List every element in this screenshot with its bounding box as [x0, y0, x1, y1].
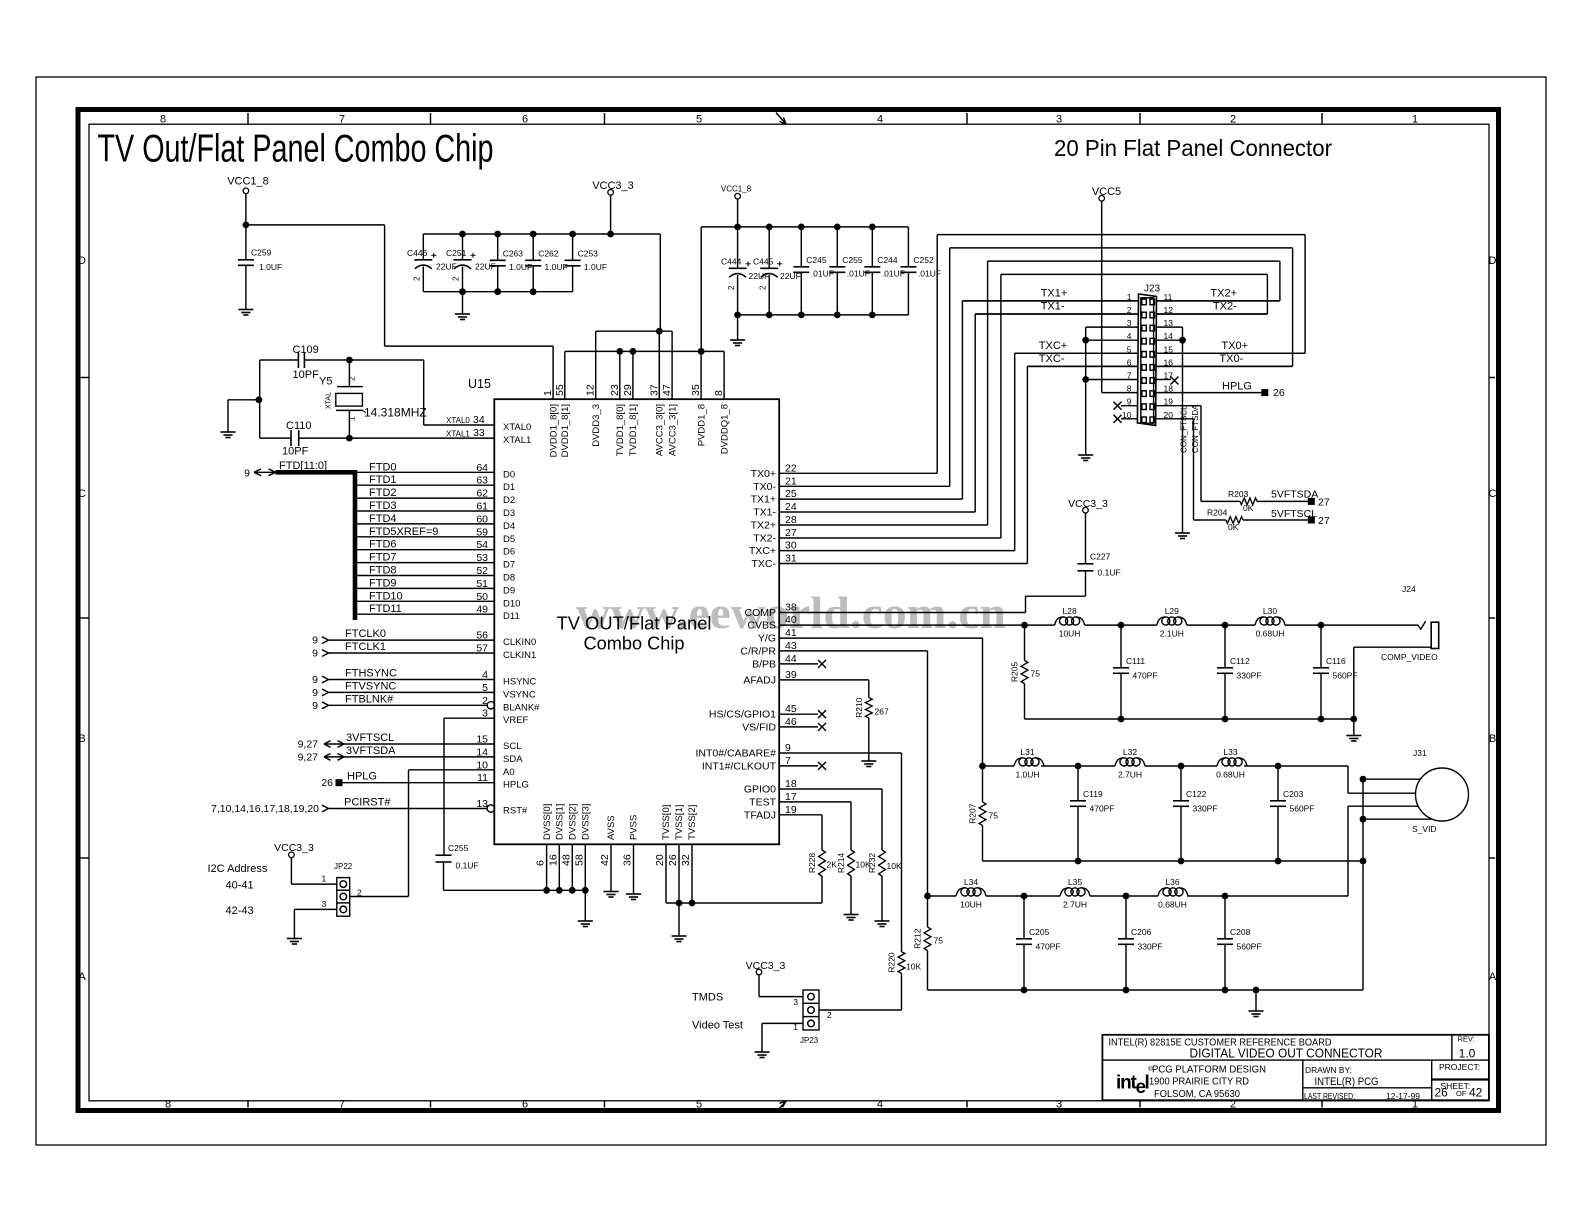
- resistor R203: [1201, 500, 1240, 502]
- svg-text:INTEL(R) PCG: INTEL(R) PCG: [1315, 1076, 1379, 1088]
- svg-text:60: 60: [476, 513, 488, 525]
- svg-text:INT0#/CABARE#: INT0#/CABARE#: [695, 748, 776, 760]
- svg-text:AVSS: AVSS: [606, 815, 617, 840]
- wire JP22 pin2 to A0: [350, 896, 409, 898]
- svg-text:62: 62: [476, 488, 488, 500]
- svg-text:10PF: 10PF: [293, 369, 320, 381]
- inductor L36: [1158, 888, 1167, 896]
- svg-text:3VFTSDA: 3VFTSDA: [346, 745, 396, 757]
- ground cap bank2: [737, 315, 739, 340]
- capacitor C206: [1125, 896, 1127, 939]
- svg-text:330PF: 330PF: [1138, 942, 1163, 952]
- svg-text:Y5: Y5: [319, 376, 332, 388]
- capacitor C445: [768, 227, 770, 268]
- svg-text:R207: R207: [968, 803, 978, 824]
- svg-text:VS/FID: VS/FID: [742, 721, 776, 733]
- chip top pin 55 DVDD1_8[1]: [564, 351, 566, 399]
- svg-text:10UH: 10UH: [960, 899, 982, 909]
- svg-text:D8: D8: [503, 573, 515, 584]
- chip top pin 35 PVDD1_8: [700, 351, 702, 399]
- wire row3 bottom rail: [928, 989, 1364, 991]
- svg-text:TXC-: TXC-: [1039, 353, 1065, 365]
- inductor L32: [1115, 758, 1124, 766]
- wire FTCLK1 to pin 57: [329, 652, 495, 654]
- svg-text:4: 4: [877, 1098, 883, 1110]
- svg-text:L28: L28: [1063, 606, 1077, 616]
- wire FTD6 to pin 54: [357, 549, 494, 551]
- svg-text:17: 17: [785, 791, 797, 803]
- capacitor C259: [245, 225, 247, 260]
- svg-text:36: 36: [622, 854, 634, 866]
- ground TVSS: [672, 935, 687, 937]
- svg-text:TV OUT/Flat Panel: TV OUT/Flat Panel: [557, 613, 712, 634]
- column ticks top: [247, 113, 249, 124]
- connector J23 pin squares: [1142, 299, 1147, 305]
- wire FTD11 to pin 49: [357, 613, 494, 615]
- svg-text:1: 1: [321, 874, 326, 884]
- svg-text:75: 75: [1031, 669, 1041, 679]
- svg-text:FTD10: FTD10: [369, 590, 403, 602]
- power VCC3_3 JP22: [289, 852, 295, 858]
- svg-text:I2C Address: I2C Address: [208, 863, 268, 875]
- svg-text:FTD0: FTD0: [369, 461, 397, 473]
- pin bubble BLANK#: [487, 702, 494, 709]
- power VCC5: [1099, 196, 1105, 202]
- capacitor C253: [572, 234, 574, 260]
- svg-text:10UH: 10UH: [1059, 628, 1081, 638]
- svg-text:0.68UH: 0.68UH: [1216, 769, 1245, 779]
- wire PCIRST# to pin 13: [329, 808, 488, 810]
- svg-text:31: 31: [785, 553, 797, 565]
- wire Y/G to row2: [779, 637, 982, 639]
- svg-text:1900 PRAIRIE CITY RD: 1900 PRAIRIE CITY RD: [1149, 1076, 1249, 1088]
- chip top pin 37 AVCC3_3[0]: [658, 331, 660, 399]
- svg-text:D6: D6: [503, 547, 515, 558]
- svg-text:R228: R228: [807, 853, 817, 874]
- ground row1: [1346, 735, 1361, 737]
- svg-text:560PF: 560PF: [1290, 804, 1315, 814]
- capacitor C262: [532, 234, 534, 260]
- svg-text:TX1-: TX1-: [1041, 301, 1065, 313]
- wire J31 pin4: [1363, 818, 1432, 820]
- svg-text:OF: OF: [1456, 1089, 1467, 1098]
- wire FTD1 to pin 63: [357, 484, 494, 486]
- chip bottom pin 58 DVSS[3]: [584, 844, 586, 890]
- svg-text:0.68UH: 0.68UH: [1158, 899, 1187, 909]
- svg-text:53: 53: [476, 552, 488, 564]
- svg-text:12-17-99: 12-17-99: [1386, 1091, 1420, 1101]
- wire VCC1_8 net: [245, 194, 247, 225]
- svg-text:TV Out/Flat Panel Combo Chip: TV Out/Flat Panel Combo Chip: [98, 128, 494, 171]
- capacitor C227: [1078, 563, 1094, 565]
- svg-text:54: 54: [476, 539, 488, 551]
- capacitor C252: [907, 227, 909, 267]
- no-connect X J23 pin 17: [1171, 377, 1179, 385]
- svg-text:63: 63: [476, 475, 488, 487]
- wire HPLG pin 11: [343, 782, 495, 784]
- pin XTAL0 34 wire: [424, 424, 495, 426]
- svg-text:TVSS[1]: TVSS[1]: [674, 805, 685, 840]
- pin XTAL1 33 wire: [349, 437, 494, 439]
- svg-text:C122: C122: [1186, 789, 1207, 799]
- svg-text:VCC5: VCC5: [1092, 186, 1121, 198]
- DVSS ground bus: [444, 889, 586, 891]
- wire VCC5 to J23 pin 8: [1101, 201, 1103, 392]
- wire row3 ground stub: [1255, 990, 1257, 1011]
- svg-text:330PF: 330PF: [1237, 671, 1262, 681]
- resistor R207: [982, 766, 984, 802]
- wire FTD9 to pin 51: [357, 587, 494, 589]
- wire VCC3_3 to JP23 pin3: [758, 975, 760, 997]
- svg-text:41: 41: [785, 627, 797, 639]
- svg-text:PROJECT:: PROJECT:: [1439, 1062, 1480, 1072]
- svg-text:5: 5: [482, 682, 488, 694]
- svg-text:14: 14: [476, 746, 488, 758]
- svg-text:TX2-: TX2-: [753, 533, 776, 545]
- svg-text:1.0UF: 1.0UF: [584, 262, 607, 272]
- svg-text:VCC1_8: VCC1_8: [721, 185, 752, 194]
- svg-text:D: D: [1489, 255, 1497, 267]
- svg-text:HS/CS/GPIO1: HS/CS/GPIO1: [709, 709, 776, 721]
- svg-text:TX1+: TX1+: [1041, 287, 1068, 299]
- no-connect X J23 pin 9: [1114, 402, 1122, 410]
- svg-text:2.1UH: 2.1UH: [1160, 628, 1184, 638]
- svg-text:1.0UF: 1.0UF: [545, 262, 568, 272]
- svg-text:C: C: [78, 488, 86, 500]
- svg-text:30: 30: [785, 540, 797, 552]
- svg-text:C227: C227: [1090, 552, 1111, 562]
- svg-text:TX2+: TX2+: [751, 520, 776, 532]
- svg-text:.01UF: .01UF: [811, 269, 834, 279]
- svg-text:C251: C251: [446, 248, 467, 258]
- svg-text:D0: D0: [503, 469, 515, 480]
- svg-text:1.0: 1.0: [1459, 1047, 1476, 1061]
- ground R210: [861, 760, 876, 762]
- TVSS bus: [666, 902, 822, 904]
- pin bubble RST#: [487, 805, 494, 812]
- sheet alignment arrow bottom: [776, 1101, 786, 1113]
- capacitor C116: [1320, 625, 1322, 668]
- svg-text:A: A: [78, 971, 86, 983]
- svg-text:C119: C119: [1083, 789, 1103, 799]
- svg-text:10: 10: [476, 759, 488, 771]
- svg-text:B: B: [78, 733, 85, 745]
- svg-text:R212: R212: [913, 928, 923, 949]
- svg-text:TMDS: TMDS: [692, 992, 723, 1004]
- wire VREF to C255: [444, 717, 494, 719]
- svg-text:C111: C111: [1126, 656, 1145, 666]
- svg-text:TX2-: TX2-: [1213, 301, 1237, 313]
- svg-text:VREF: VREF: [503, 715, 529, 726]
- wire JP22 pin3 to ground: [294, 908, 336, 910]
- wire 3VFTSCL to pin 15: [324, 743, 494, 745]
- svg-text:75: 75: [989, 811, 999, 821]
- svg-text:3: 3: [1056, 1098, 1062, 1110]
- resistor R220: [898, 952, 905, 974]
- svg-text:42: 42: [1469, 1086, 1483, 1100]
- svg-text:22UF: 22UF: [436, 262, 457, 272]
- svg-text:C263: C263: [503, 248, 524, 258]
- svg-text:C203: C203: [1283, 789, 1304, 799]
- svg-text:TVDD1_8[0]: TVDD1_8[0]: [615, 404, 626, 456]
- svg-text:VCC3_3: VCC3_3: [592, 180, 634, 192]
- svg-text:8: 8: [160, 114, 166, 126]
- svg-text:22UF: 22UF: [749, 271, 770, 281]
- capacitor C205: [1023, 896, 1025, 939]
- wire CON_FTSCL from J23 pin 20: [1157, 418, 1194, 420]
- svg-text:DVDD1_8[1]: DVDD1_8[1]: [560, 404, 571, 457]
- ground cap bank1: [462, 292, 464, 314]
- svg-text:FTD8: FTD8: [369, 565, 397, 577]
- no-connect X VS/FID: [779, 726, 818, 728]
- jumper JP22: [337, 878, 350, 917]
- wire A0 pin 10 to JP22: [409, 769, 495, 771]
- svg-text:FTD9: FTD9: [369, 577, 397, 589]
- wire bank1 to rail VCC3_3: [659, 234, 661, 331]
- svg-text:REV:: REV:: [1458, 1035, 1475, 1044]
- svg-text:CLKIN1: CLKIN1: [503, 650, 536, 661]
- svg-text:20: 20: [654, 854, 666, 866]
- wire TX2- from chip to J23: [779, 537, 1001, 539]
- svg-text:40: 40: [785, 614, 797, 626]
- svg-text:18: 18: [785, 778, 797, 790]
- svg-text:330PF: 330PF: [1193, 804, 1218, 814]
- wire TX0- from chip to J23: [779, 485, 950, 487]
- svg-text:39: 39: [785, 669, 797, 681]
- svg-text:DVSS[3]: DVSS[3]: [581, 804, 592, 840]
- ground crystal: [221, 431, 236, 433]
- svg-text:VCC3_3: VCC3_3: [746, 960, 786, 972]
- svg-text:9: 9: [312, 635, 318, 647]
- svg-text:2.7UH: 2.7UH: [1063, 899, 1087, 909]
- svg-text:22: 22: [785, 462, 797, 474]
- svg-text:28: 28: [785, 514, 797, 526]
- svg-text:7: 7: [339, 1098, 345, 1110]
- wire row2 rail: [983, 765, 1015, 767]
- svg-text:FTD4: FTD4: [369, 513, 397, 525]
- svg-text:TX0+: TX0+: [1221, 340, 1248, 352]
- svg-text:27: 27: [1318, 515, 1330, 527]
- bus FTD[11:0] thick bus: [276, 470, 356, 475]
- svg-text:26: 26: [1273, 387, 1285, 399]
- svg-text:16: 16: [547, 854, 559, 866]
- svg-text:B/PB: B/PB: [752, 658, 776, 670]
- svg-text:D: D: [78, 255, 86, 267]
- svg-text:27: 27: [1318, 497, 1330, 509]
- chip bottom pin 32 TVSS[2]: [691, 844, 693, 903]
- svg-text:20 Pin Flat Panel Connector: 20 Pin Flat Panel Connector: [1054, 135, 1332, 161]
- svg-text:L35: L35: [1068, 877, 1082, 887]
- svg-text:.01UF: .01UF: [882, 269, 905, 279]
- wire row2 bottom rail: [983, 860, 1364, 862]
- svg-text:1.0UH: 1.0UH: [1015, 769, 1039, 779]
- svg-text:CLKIN0: CLKIN0: [503, 637, 536, 648]
- wire TFADJ to R228: [779, 814, 822, 816]
- wire AFADJ to R210: [779, 679, 869, 681]
- svg-text:470PF: 470PF: [1090, 804, 1115, 814]
- svg-text:75: 75: [934, 936, 944, 946]
- svg-text:TVSS[2]: TVSS[2]: [687, 805, 698, 840]
- svg-text:D11: D11: [503, 611, 520, 622]
- svg-text:1: 1: [1412, 114, 1418, 126]
- svg-text:C116: C116: [1326, 656, 1346, 666]
- svg-text:32: 32: [680, 854, 692, 866]
- connector J24: [1431, 622, 1439, 648]
- svg-text:23: 23: [609, 384, 621, 396]
- svg-text:D4: D4: [503, 521, 515, 532]
- svg-text:9: 9: [312, 687, 318, 699]
- J23 ground wire rows 3-4-7: [1085, 327, 1087, 455]
- capacitor C255: [436, 854, 452, 856]
- inductor L34: [956, 888, 965, 896]
- resistor R204: [1194, 519, 1227, 521]
- svg-text:8: 8: [165, 1098, 171, 1110]
- svg-text:6: 6: [522, 1098, 528, 1110]
- svg-text:57: 57: [476, 643, 488, 655]
- svg-text:C109: C109: [293, 344, 319, 356]
- wire FTD2 to pin 62: [357, 497, 494, 499]
- svg-text:9,27: 9,27: [298, 739, 319, 751]
- svg-text:52: 52: [476, 565, 488, 577]
- chip U15 outline: [494, 399, 779, 844]
- svg-text:XTAL1: XTAL1: [446, 429, 470, 438]
- chip bottom pin 26 TVSS[1]: [678, 844, 680, 903]
- svg-text:Video Test: Video Test: [692, 1020, 743, 1032]
- svg-text:C444: C444: [721, 257, 742, 267]
- svg-text:L32: L32: [1123, 747, 1137, 757]
- inductor L31: [1014, 758, 1023, 766]
- chip top pin 29 TVDD1_8[1]: [632, 351, 634, 399]
- svg-text:C244: C244: [877, 255, 898, 265]
- svg-text:C446: C446: [407, 248, 428, 258]
- svg-text:R205: R205: [1010, 662, 1020, 683]
- power VCC3_3 above C227: [1083, 507, 1089, 513]
- sheet inner border line: [89, 124, 1489, 1101]
- wire row1 node3: [1187, 624, 1255, 626]
- svg-text:XTAL0: XTAL0: [446, 416, 470, 425]
- svg-text:FTCLK1: FTCLK1: [345, 641, 386, 653]
- svg-text:42: 42: [599, 854, 611, 866]
- chip bottom pin 20 TVSS[0]: [665, 844, 667, 903]
- wire INT0#/CABARE# to R220: [779, 752, 901, 754]
- svg-text:LAST REVISED:: LAST REVISED:: [1304, 1091, 1355, 1101]
- svg-text:2.7UH: 2.7UH: [1118, 769, 1142, 779]
- J23 right pin wires rows 11-20: [1157, 300, 1280, 302]
- svg-text:FTD[11:0]: FTD[11:0]: [279, 460, 327, 472]
- svg-text:AVCC3_3[1]: AVCC3_3[1]: [667, 404, 678, 456]
- connector J23 body: [1137, 294, 1156, 425]
- wire J31 pin1: [1363, 778, 1421, 780]
- connector J31: [1416, 768, 1469, 821]
- chip top pin 12 DVDD3_3: [595, 331, 597, 399]
- svg-text:7,10,14,16,17,18,19,20: 7,10,14,16,17,18,19,20: [211, 803, 319, 815]
- resistor R228: [819, 850, 826, 876]
- svg-text:PCIRST#: PCIRST#: [344, 797, 391, 809]
- svg-text:U15: U15: [468, 377, 491, 391]
- inductor L29: [1157, 617, 1166, 625]
- wire FTVSYNC to pin 5: [329, 691, 495, 693]
- ground J23 left: [1078, 454, 1093, 456]
- wire TX2+ from chip to J23: [779, 524, 987, 526]
- svg-text:0K: 0K: [1228, 522, 1239, 532]
- jumper JP23: [803, 990, 819, 1030]
- capacitor C245: [800, 227, 802, 267]
- capacitor C112: [1224, 625, 1226, 668]
- power VCC3_3 cap bank: [608, 190, 614, 196]
- svg-text:10K: 10K: [906, 962, 921, 972]
- svg-text:C112: C112: [1230, 656, 1250, 666]
- ground J23 right: [1175, 532, 1190, 534]
- svg-text:FTD11: FTD11: [369, 603, 402, 615]
- svg-text:2: 2: [452, 276, 461, 281]
- svg-text:5: 5: [696, 1098, 702, 1110]
- svg-text:Y/G: Y/G: [758, 633, 776, 645]
- svg-text:560PF: 560PF: [1237, 942, 1262, 952]
- rail VCC1_8 pins 55-23-29-35-8: [565, 350, 724, 352]
- svg-text:J23: J23: [1144, 284, 1161, 295]
- svg-text:FTHSYNC: FTHSYNC: [345, 668, 397, 680]
- svg-text:15: 15: [476, 734, 488, 746]
- svg-text:R204: R204: [1207, 508, 1228, 518]
- svg-text:C206: C206: [1131, 927, 1152, 937]
- svg-text:1: 1: [347, 416, 357, 421]
- svg-text:TX1+: TX1+: [751, 494, 776, 506]
- wire FTD0 to pin 64: [357, 471, 494, 473]
- ground JP23: [755, 1051, 770, 1053]
- resistor R232: [879, 850, 886, 876]
- svg-text:14.318MHZ: 14.318MHZ: [364, 406, 427, 420]
- wire COMP to C227 net: [779, 612, 1025, 614]
- svg-text:9: 9: [785, 742, 791, 754]
- wire crystal left: [259, 360, 261, 438]
- capacitor C203: [1277, 766, 1279, 801]
- svg-text:C110: C110: [286, 420, 311, 432]
- capacitor C263: [497, 234, 499, 260]
- svg-text:PVDD1_8: PVDD1_8: [696, 404, 707, 446]
- svg-text:Combo Chip: Combo Chip: [584, 633, 685, 654]
- svg-text:D2: D2: [503, 495, 515, 506]
- wire HPLG from J23 pin 18: [1157, 392, 1262, 394]
- capacitor C208: [1224, 896, 1226, 939]
- wire CVBS rail row1: [779, 624, 1054, 626]
- svg-text:L33: L33: [1223, 747, 1237, 757]
- svg-text:9,27: 9,27: [298, 751, 319, 763]
- svg-text:R214: R214: [836, 853, 846, 874]
- ground row3: [1249, 1010, 1264, 1012]
- capacitor C446: [422, 234, 424, 260]
- wire C/R/PR to row3: [779, 650, 927, 652]
- svg-text:9: 9: [244, 467, 250, 479]
- ground JP22: [287, 938, 302, 940]
- svg-text:VSYNC: VSYNC: [503, 689, 536, 700]
- svg-text:0.68UH: 0.68UH: [1256, 628, 1285, 638]
- svg-text:D3: D3: [503, 508, 515, 519]
- rail VCC1_8 to pin 1: [385, 345, 553, 347]
- svg-text:.01UF: .01UF: [918, 269, 941, 279]
- svg-text:R203: R203: [1228, 489, 1249, 499]
- svg-text:XTAL0: XTAL0: [503, 422, 531, 433]
- svg-text:59: 59: [476, 526, 488, 538]
- svg-text:L29: L29: [1165, 606, 1179, 616]
- svg-text:43: 43: [785, 640, 797, 652]
- svg-text:470PF: 470PF: [1133, 671, 1158, 681]
- svg-text:TXC-: TXC-: [752, 558, 777, 570]
- capacitor C111: [1120, 625, 1122, 668]
- ground R214: [844, 914, 859, 916]
- capacitor C109: [297, 352, 299, 368]
- svg-text:D10: D10: [503, 598, 520, 609]
- svg-text:L34: L34: [964, 877, 978, 887]
